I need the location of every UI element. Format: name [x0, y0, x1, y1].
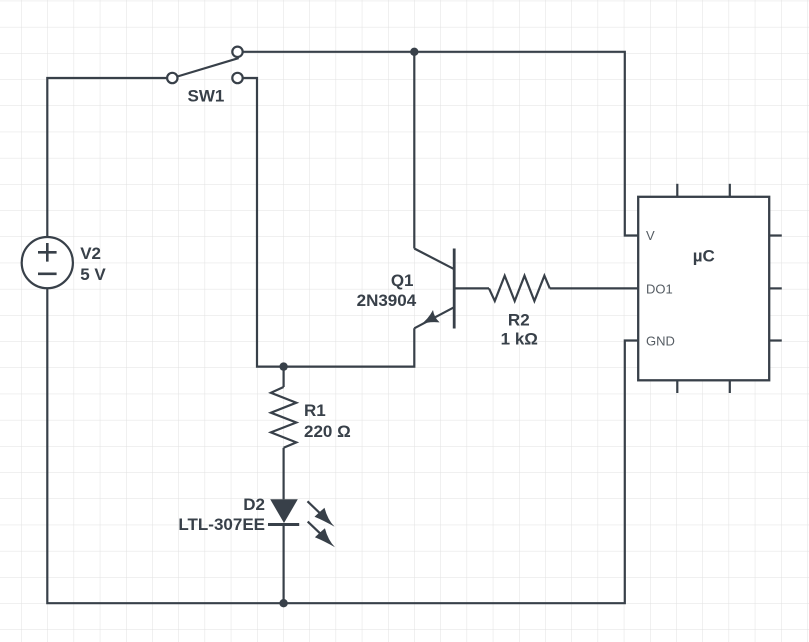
svg-text:R2: R2: [508, 310, 530, 329]
switch SW1 blade: [177, 58, 238, 76]
svg-text:2N3904: 2N3904: [357, 291, 417, 310]
resistor R1 zigzag: [271, 387, 296, 448]
uC top pin 2: [729, 184, 731, 197]
transistor Q1 collector lead: [414, 249, 454, 270]
wire: base to R2: [454, 287, 489, 289]
LED D2 triangle: [270, 499, 298, 523]
uC bottom pin 1: [676, 380, 678, 393]
svg-text:GND: GND: [646, 334, 675, 349]
svg-text:Q1: Q1: [391, 271, 414, 290]
svg-text:LTL-307EE: LTL-307EE: [178, 515, 265, 534]
uC right pin 2: [769, 287, 782, 289]
transistor Q1 body bar: [453, 249, 456, 329]
svg-text:220 Ω: 220 Ω: [304, 422, 351, 441]
wire: switch bottom contact down to emitter rail: [243, 78, 414, 367]
svg-text:1 kΩ: 1 kΩ: [501, 330, 538, 349]
switch SW1 bottom-right contact: [232, 73, 242, 83]
wire: R2 to uC DO1 pin: [550, 287, 639, 289]
junction dot: LED bottom / ground rail: [279, 599, 287, 607]
voltage source V2: [22, 237, 73, 288]
uC right pin 1: [769, 234, 782, 236]
resistor R2 zigzag: [489, 276, 550, 301]
wire: R1 to LED: [283, 448, 285, 500]
svg-text:SW1: SW1: [188, 86, 225, 105]
svg-text:5 V: 5 V: [80, 265, 106, 284]
uC top pin 1: [676, 184, 678, 197]
svg-text:µC: µC: [693, 246, 715, 265]
transistor Q1 emitter arrow: [420, 310, 439, 325]
switch SW1 top-right contact: [232, 47, 242, 57]
svg-text:DO1: DO1: [646, 281, 673, 296]
switch SW1 left contact: [167, 73, 177, 83]
wire: collector vertical: [413, 52, 415, 249]
wire: R1 branch vertical (junction to zigzag): [283, 367, 285, 387]
wire: LED to ground rail: [283, 525, 285, 604]
junction dot: collector/top rail: [410, 48, 418, 56]
uC right pin 3: [769, 339, 782, 341]
wire: battery bottom to ground rail: [47, 288, 639, 603]
junction dot: R1 top: [279, 362, 287, 370]
transistor Q1 emitter lead: [414, 307, 454, 328]
LED emission arrow 2: [308, 522, 335, 548]
wire: battery top to switch left contact: [47, 78, 167, 237]
svg-text:V2: V2: [80, 244, 101, 263]
wire: top rail from switch to uC V pin: [243, 52, 639, 236]
uC box: [638, 197, 769, 380]
svg-text:V: V: [646, 228, 655, 243]
LED D2 cathode bar: [268, 523, 299, 526]
uC bottom pin 2: [729, 380, 731, 393]
LED emission arrow 1: [308, 501, 335, 527]
svg-text:R1: R1: [304, 401, 326, 420]
svg-text:D2: D2: [243, 495, 265, 514]
